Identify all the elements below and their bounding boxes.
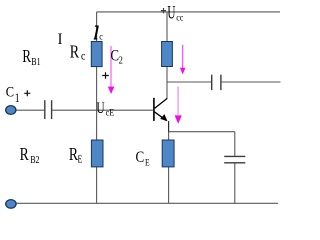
transistor Q1 emitter lead bbox=[154, 112, 166, 121]
label plus near C1 bbox=[24, 90, 30, 96]
wire emitter node to bypass capacitor bbox=[169, 131, 235, 133]
wire emitter vertical through RE branch bbox=[168, 131, 170, 203]
svg-text:I: I bbox=[58, 30, 63, 48]
svg-text:cc: cc bbox=[176, 12, 183, 23]
wire output line right segment bbox=[221, 81, 280, 83]
svg-text:c: c bbox=[81, 50, 86, 63]
wire bypass capacitor top lead bbox=[234, 132, 236, 156]
resistor Rc (upper left chain) bbox=[91, 42, 102, 67]
transistor Q1 base bar bbox=[153, 98, 155, 121]
svg-text:C: C bbox=[111, 47, 120, 65]
wire top supply rail bbox=[97, 11, 280, 13]
svg-text:R: R bbox=[70, 43, 80, 62]
wire collector branch vertical (node B) bbox=[166, 12, 168, 99]
svg-text:C: C bbox=[6, 84, 14, 100]
svg-text:R: R bbox=[20, 146, 29, 165]
wire bottom rail bbox=[16, 202, 279, 204]
transistor Q1 collector lead bbox=[155, 98, 168, 108]
wire base line from C1 to transistor bbox=[52, 109, 153, 111]
arrow magenta emitter current bbox=[175, 87, 182, 124]
transistor Q1 emitter arrowhead bbox=[160, 114, 167, 121]
svg-text:E: E bbox=[78, 153, 83, 164]
wire bypass capacitor bottom lead bbox=[234, 163, 236, 203]
wire output line left segment bbox=[167, 81, 211, 83]
svg-text:E: E bbox=[145, 158, 150, 168]
label Ic (italic) bbox=[94, 26, 99, 39]
capacitor output coupling plate 1 bbox=[211, 75, 213, 90]
svg-text:2: 2 bbox=[119, 56, 124, 67]
capacitor bypass plate bottom bbox=[224, 162, 245, 164]
capacitor output coupling plate 2 bbox=[220, 75, 222, 90]
capacitor C1 plate 1 bbox=[44, 100, 46, 119]
svg-text:R: R bbox=[22, 47, 31, 66]
svg-text:U: U bbox=[167, 3, 175, 24]
svg-text:B2: B2 bbox=[30, 154, 40, 165]
terminal bottom left (blue ellipse) bbox=[6, 200, 16, 209]
wire left bias chain vertical (node A) bbox=[96, 12, 98, 203]
svg-text:E: E bbox=[109, 107, 114, 118]
resistor RE (lower left chain) bbox=[91, 140, 103, 167]
resistor emitter branch (label CE nearby) bbox=[162, 140, 174, 167]
resistor collector branch (under +Ucc) bbox=[162, 42, 173, 67]
terminal input (blue ellipse) bbox=[6, 106, 16, 115]
arrow magenta current C2 branch bbox=[108, 46, 115, 94]
wire input to C1 bbox=[16, 109, 45, 111]
capacitor bypass plate top bbox=[224, 155, 245, 157]
capacitor C1 plate 2 bbox=[51, 100, 53, 119]
svg-text:U: U bbox=[96, 99, 104, 118]
svg-text:B1: B1 bbox=[31, 56, 40, 67]
transistor Q1 emitter down segment to node bbox=[168, 121, 170, 132]
arrow magenta beside collector resistor bbox=[180, 45, 186, 74]
svg-text:C: C bbox=[136, 149, 145, 167]
label plus at Ucc bbox=[161, 8, 166, 13]
label plus below Rc bbox=[102, 72, 109, 79]
svg-text:1: 1 bbox=[15, 92, 20, 106]
svg-text:c: c bbox=[99, 31, 103, 42]
